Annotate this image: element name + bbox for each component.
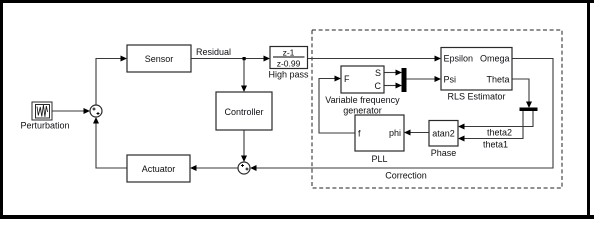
- svg-text:z-0.99: z-0.99: [277, 59, 301, 69]
- svg-text:theta1: theta1: [483, 140, 508, 150]
- svg-text:PLL: PLL: [371, 154, 387, 164]
- svg-text:Variable frequency: Variable frequency: [325, 95, 400, 105]
- svg-text:Omega: Omega: [480, 54, 510, 64]
- svg-text:atan2: atan2: [432, 129, 455, 139]
- svg-text:S: S: [375, 68, 381, 78]
- svg-text:z-1: z-1: [283, 48, 295, 58]
- svg-text:C: C: [375, 81, 382, 91]
- svg-text:phi: phi: [389, 128, 401, 138]
- svg-text:Actuator: Actuator: [142, 164, 176, 174]
- svg-text:High pass: High pass: [268, 70, 309, 80]
- svg-text:Controller: Controller: [224, 107, 263, 117]
- svg-text:Correction: Correction: [385, 171, 427, 181]
- svg-text:Sensor: Sensor: [145, 54, 174, 64]
- svg-text:Psi: Psi: [444, 75, 457, 85]
- svg-text:RLS Estimator: RLS Estimator: [447, 92, 505, 102]
- svg-text:Phase: Phase: [431, 148, 457, 158]
- svg-text:Theta: Theta: [486, 75, 509, 85]
- svg-text:Perturbation: Perturbation: [20, 121, 69, 131]
- svg-text:theta2: theta2: [487, 128, 512, 138]
- svg-text:F: F: [344, 74, 350, 84]
- svg-text:generator: generator: [343, 106, 382, 116]
- svg-text:Epsilon: Epsilon: [444, 54, 474, 64]
- svg-text:Residual: Residual: [196, 47, 231, 57]
